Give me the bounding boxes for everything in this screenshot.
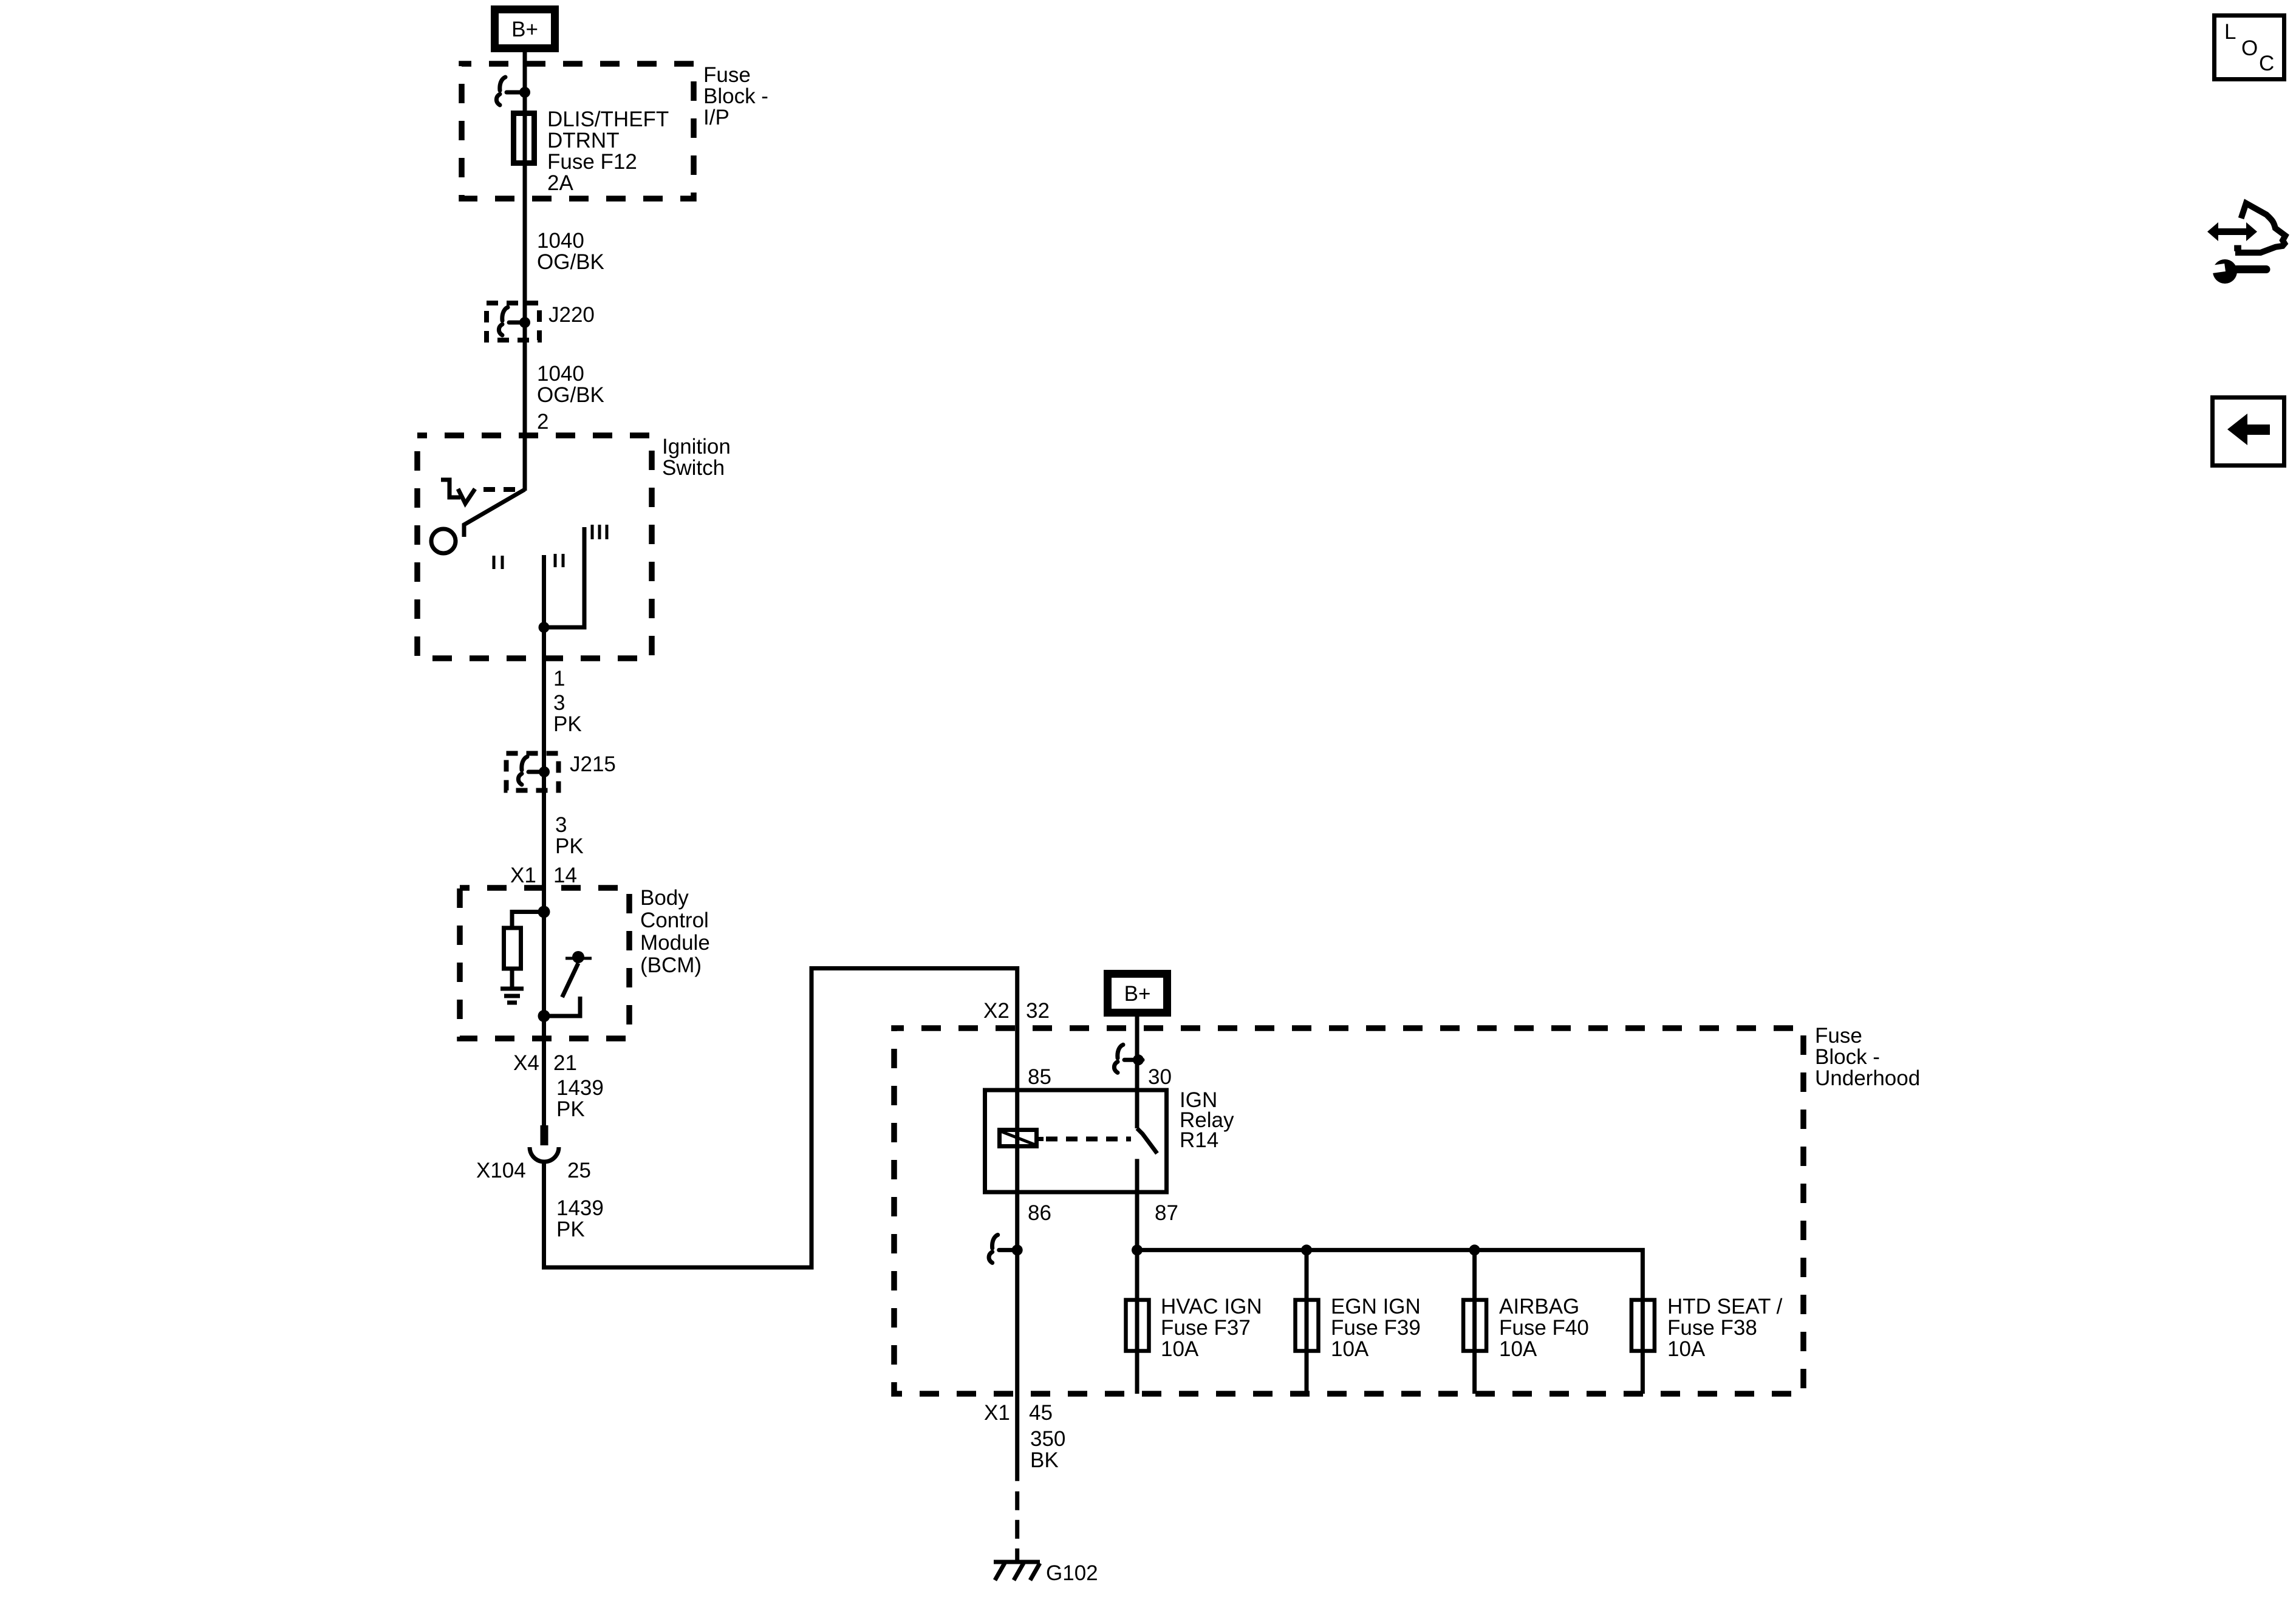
svg-text:87: 87 (1155, 1201, 1178, 1225)
svg-text:25: 25 (567, 1159, 591, 1182)
junction dot (519, 87, 530, 98)
wire X104 to relay coil (routed) (544, 969, 1017, 1481)
fuse F37 label (1161, 1295, 1262, 1361)
svg-text:J220: J220 (548, 303, 595, 327)
svg-text:AIRBAG: AIRBAG (1499, 1295, 1579, 1318)
junction dot bus F39 (1301, 1244, 1312, 1255)
svg-text:1040: 1040 (537, 362, 584, 386)
wire label 350 BK (1030, 1427, 1065, 1472)
svg-text:2A: 2A (547, 171, 573, 195)
svg-text:X104: X104 (476, 1159, 526, 1182)
wire bus through fuse F39 to box edge (1305, 1250, 1309, 1394)
switch contact circle (431, 529, 456, 553)
clip at B+2 (1114, 1045, 1143, 1072)
svg-text:G102: G102 (1046, 1561, 1098, 1585)
clip at pin 86 wire (989, 1235, 1017, 1263)
junction dot J220 (519, 317, 530, 328)
svg-text:3: 3 (553, 691, 565, 715)
fuse block I/P label (703, 63, 768, 129)
resistor R in BCM (504, 928, 521, 969)
BCM switch pivot bar (565, 957, 592, 960)
svg-text:X2: X2 (983, 999, 1010, 1023)
fuse block underhood dashed box (894, 1028, 1803, 1394)
junction dot BCM bottom (538, 1010, 550, 1022)
wire label 1040 OG/BK upper (537, 229, 604, 274)
junction dot 86 clip (1012, 1244, 1023, 1255)
svg-text:PK: PK (556, 1218, 585, 1241)
position III contact wire (544, 527, 585, 627)
junction dot BCM top (538, 906, 550, 918)
ignition switch label (662, 435, 731, 480)
vehicle diagnostic icon: car outline (2234, 203, 2285, 253)
svg-text:Fuse F12: Fuse F12 (547, 150, 637, 174)
svg-text:R14: R14 (1180, 1128, 1218, 1152)
svg-text:10A: 10A (1161, 1337, 1199, 1361)
position II ticks b (555, 554, 563, 567)
svg-text:DLIS/THEFT: DLIS/THEFT (547, 107, 669, 131)
svg-text:Fuse: Fuse (1815, 1024, 1862, 1048)
connector X104 female socket (530, 1147, 559, 1162)
svg-text:30: 30 (1148, 1065, 1172, 1089)
svg-text:(BCM): (BCM) (640, 953, 702, 977)
svg-text:Fuse F37: Fuse F37 (1161, 1316, 1251, 1340)
dashed wire to ground (1015, 1492, 1019, 1560)
svg-text:Fuse F38: Fuse F38 (1667, 1316, 1757, 1340)
fuse F40 label (1499, 1295, 1589, 1361)
clip in fuse block I/P (496, 77, 525, 105)
clip in J220 (499, 307, 527, 335)
position III ticks (592, 525, 607, 539)
junction dot ignition (539, 622, 550, 633)
junction dot bus F37 (1132, 1244, 1143, 1255)
connector X1 pin 14 label (510, 864, 577, 887)
vehicle diagnostic icon: double arrow (2207, 222, 2257, 241)
ground in BCM (501, 989, 524, 1003)
junction dot bus F40 (1469, 1244, 1480, 1255)
svg-text:Control: Control (640, 909, 709, 932)
svg-text:Module: Module (640, 931, 710, 955)
svg-text:10A: 10A (1499, 1337, 1537, 1361)
ground G102 (994, 1562, 1040, 1580)
IGN relay R14 box (985, 1090, 1167, 1192)
body control module dashed box (460, 888, 629, 1038)
position II ticks a (494, 556, 502, 569)
svg-text:Body: Body (640, 886, 689, 910)
svg-text:X4: X4 (513, 1051, 539, 1075)
svg-text:350: 350 (1030, 1427, 1065, 1451)
key linkage dashed (483, 487, 522, 492)
svg-text:32: 32 (1026, 999, 1050, 1023)
svg-text:86: 86 (1028, 1201, 1051, 1225)
wire to resistor (512, 912, 544, 929)
fuse F12 (514, 114, 535, 163)
svg-text:45: 45 (1029, 1401, 1053, 1425)
BCM label (640, 886, 710, 977)
BCM switch pivot dot (572, 951, 584, 963)
wire ignition switch to BCM (542, 627, 546, 1127)
svg-text:2: 2 (537, 410, 548, 434)
svg-text:Underhood: Underhood (1815, 1066, 1920, 1090)
wire label 1439 PK lower (556, 1196, 604, 1241)
svg-text:DTRNT: DTRNT (547, 129, 620, 152)
connector X2 pin 32 label (983, 999, 1050, 1023)
svg-text:J215: J215 (570, 752, 616, 776)
wire fuse F38 to box edge (1641, 1297, 1645, 1394)
relay linkage dashed (1046, 1137, 1131, 1142)
relay coil (1000, 1130, 1037, 1147)
junction dot B+2 clip (1133, 1054, 1144, 1065)
svg-text:L: L (2224, 20, 2236, 44)
svg-text:HVAC IGN: HVAC IGN (1161, 1295, 1262, 1318)
svg-text:Switch: Switch (662, 456, 725, 480)
connector X104 male pin (541, 1125, 548, 1145)
svg-text:10A: 10A (1331, 1337, 1369, 1361)
svg-text:PK: PK (556, 1097, 585, 1121)
battery feed B+ terminal 1 (495, 10, 555, 49)
switch arm (464, 489, 525, 537)
position II contact wire (542, 555, 546, 627)
svg-text:HTD SEAT /: HTD SEAT / (1667, 1295, 1783, 1318)
clip in J215 (518, 757, 547, 785)
svg-text:Fuse: Fuse (703, 63, 751, 87)
fuse F39 label (1331, 1295, 1421, 1361)
fuse block I/P dashed box (462, 64, 694, 199)
fuse block underhood label (1815, 1024, 1920, 1090)
wire resistor to ground (510, 969, 514, 987)
splice J220 dashed box (487, 303, 539, 340)
svg-text:14: 14 (553, 864, 577, 887)
svg-text:85: 85 (1028, 1065, 1051, 1089)
ignition switch dashed box (417, 435, 652, 658)
svg-text:Fuse F39: Fuse F39 (1331, 1316, 1421, 1340)
svg-text:Block -: Block - (703, 84, 768, 108)
svg-text:1: 1 (553, 667, 565, 690)
fuse F40 (1463, 1300, 1486, 1351)
IGN relay label (1180, 1088, 1234, 1152)
svg-text:PK: PK (555, 834, 584, 858)
connector X104 label (476, 1159, 591, 1182)
svg-text:1040: 1040 (537, 229, 584, 253)
svg-text:B+: B+ (1124, 982, 1151, 1006)
battery feed B+ terminal 2 (1108, 974, 1167, 1013)
wire bus through fuse F37 to box edge (1135, 1250, 1139, 1394)
relay switch arm (1137, 1128, 1157, 1153)
key symbol (441, 480, 475, 503)
svg-text:C: C (2259, 52, 2274, 75)
svg-text:Ignition: Ignition (662, 435, 731, 459)
splice J215 dashed box (507, 754, 559, 791)
wire label 3 PK lower (555, 813, 584, 858)
svg-text:O: O (2241, 36, 2258, 60)
wire label 1439 PK upper (556, 1076, 604, 1121)
LOC box icon (2215, 16, 2284, 80)
junction dot J215 (539, 766, 550, 777)
wire label 3 PK upper (553, 691, 582, 736)
relay pin 87 wire to fuse bus (1137, 1159, 1642, 1297)
connector X1 pin 45 label (984, 1401, 1053, 1425)
fuse F38 (1631, 1300, 1655, 1351)
relay coil diagonal (1001, 1131, 1035, 1145)
svg-text:X1: X1 (510, 864, 536, 887)
svg-text:EGN IGN: EGN IGN (1331, 1295, 1421, 1318)
connector X4 pin 21 label (513, 1051, 577, 1075)
back arrow box icon (2213, 398, 2284, 466)
svg-text:Fuse F40: Fuse F40 (1499, 1316, 1589, 1340)
svg-text:OG/BK: OG/BK (537, 383, 604, 407)
wire B+ to ignition switch (523, 50, 527, 491)
svg-text:B+: B+ (511, 18, 538, 41)
fuse F38 label (1667, 1295, 1783, 1361)
svg-text:Block -: Block - (1815, 1045, 1880, 1069)
svg-text:PK: PK (553, 712, 582, 736)
wire label 1040 OG/BK lower (537, 362, 604, 407)
svg-text:10A: 10A (1667, 1337, 1706, 1361)
svg-text:I/P: I/P (703, 106, 729, 129)
BCM switch arm (562, 963, 579, 997)
svg-text:1439: 1439 (556, 1196, 604, 1220)
wire B+2 to relay pin 30 (1135, 1014, 1139, 1128)
BCM switch contact (545, 997, 580, 1016)
wire bus through fuse F40 to box edge (1472, 1250, 1477, 1394)
svg-text:1439: 1439 (556, 1076, 604, 1100)
vehicle diagnostic icon: wrench (2199, 259, 2266, 284)
fuse F39 (1296, 1300, 1319, 1351)
svg-text:BK: BK (1030, 1448, 1059, 1472)
svg-text:OG/BK: OG/BK (537, 250, 604, 274)
fuse F12 label (547, 107, 669, 195)
svg-text:X1: X1 (984, 1401, 1010, 1425)
svg-text:21: 21 (553, 1051, 577, 1075)
relay coil stub (1039, 1137, 1044, 1141)
fuse F37 (1126, 1300, 1149, 1351)
svg-text:3: 3 (555, 813, 567, 837)
